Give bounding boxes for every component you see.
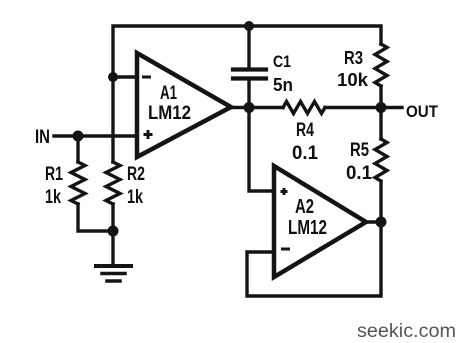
svg-text:1k: 1k	[127, 187, 143, 208]
svg-text:10k: 10k	[337, 70, 369, 90]
svg-text:1k: 1k	[45, 187, 61, 208]
svg-text:A2: A2	[295, 196, 314, 218]
svg-text:0.1: 0.1	[346, 163, 372, 184]
svg-text:R3: R3	[344, 48, 363, 68]
svg-text:5n: 5n	[273, 75, 293, 95]
svg-text:R2: R2	[127, 164, 145, 185]
svg-text:0.1: 0.1	[292, 143, 318, 164]
svg-text:R5: R5	[350, 140, 369, 161]
svg-text:R4: R4	[296, 120, 314, 141]
svg-text:R1: R1	[45, 164, 63, 185]
svg-text:C1: C1	[273, 52, 291, 71]
svg-text:LM12: LM12	[148, 103, 191, 124]
svg-text:seekic.com: seekic.com	[357, 321, 456, 342]
svg-text:OUT: OUT	[406, 102, 439, 121]
svg-text:LM12: LM12	[288, 217, 327, 239]
svg-text:A1: A1	[160, 83, 177, 104]
svg-text:IN: IN	[35, 127, 50, 148]
